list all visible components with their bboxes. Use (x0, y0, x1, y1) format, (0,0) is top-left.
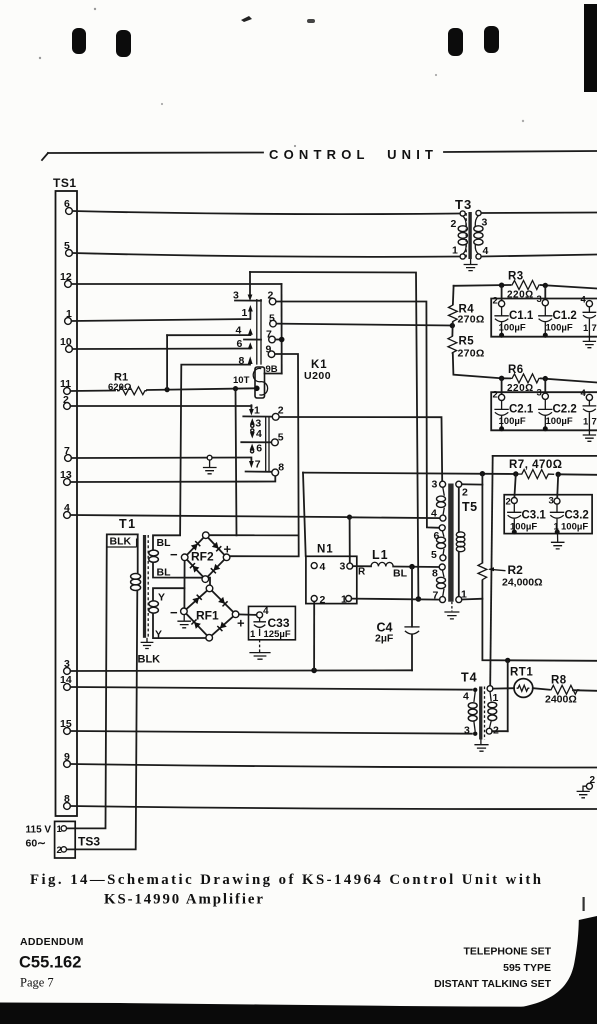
punch hole blob 3 (448, 28, 463, 56)
T4 right winding (488, 692, 497, 729)
SCAN ARTIFACTS TOP (39, 4, 597, 147)
svg-text:C2.1: C2.1 (509, 404, 534, 416)
svg-text:1: 1 (250, 629, 256, 640)
rectifier RF2 (181, 532, 230, 582)
T5 pin 1 (456, 589, 467, 603)
svg-text:−: − (170, 605, 178, 620)
svg-text:4: 4 (483, 245, 489, 257)
TS3 (26, 821, 101, 858)
T4 core (479, 687, 482, 740)
wire R3 left feed (454, 284, 510, 287)
wire T1 Y upper lead (153, 588, 184, 600)
wire K1 top feed down to T5 pin7 net (250, 272, 418, 599)
svg-text:U200: U200 (304, 370, 331, 382)
punch hole blob 2 (116, 30, 131, 57)
wire K1 contact9 down to RF2 plus (230, 354, 299, 556)
C3 terminal 2 (506, 497, 518, 508)
K1 upper contact 8 (239, 355, 253, 367)
TS1 terminal 13 (60, 469, 72, 485)
svg-text:C33: C33 (268, 616, 290, 630)
svg-text:T1: T1 (119, 517, 137, 531)
punch hole blob 1 (72, 28, 86, 54)
C1 terminal 3 (537, 294, 549, 306)
svg-text:3: 3 (464, 725, 470, 737)
TS1 terminal 7 (64, 445, 71, 461)
junction dot T4 pin2 riser (505, 658, 510, 663)
svg-text:4: 4 (431, 508, 437, 520)
svg-text:3: 3 (432, 479, 438, 491)
capacitor C1.2 (538, 306, 589, 338)
junction dot R4/R5 (450, 323, 455, 328)
junction dot TS1-4 bus (347, 515, 352, 520)
T1 core (143, 535, 146, 638)
svg-text:100µF: 100µF (546, 323, 573, 334)
svg-text:R: R (358, 567, 366, 578)
svg-text:Y: Y (158, 592, 165, 604)
svg-text:4: 4 (463, 691, 469, 703)
K1 upper contact 1 (242, 305, 253, 319)
wire TS1-11 to R1 (70, 390, 115, 393)
wire TS1-2 to K1 lower contact 1 (70, 405, 251, 407)
svg-text:2: 2 (451, 218, 457, 230)
junction dot bus/R2 (480, 471, 485, 476)
T5 pin 5 (431, 549, 446, 561)
svg-text:4: 4 (320, 561, 326, 573)
rectifier RF1 (181, 585, 239, 641)
resistor R1 (108, 372, 147, 395)
TS3 terminal 1 (57, 824, 67, 835)
T5 core (448, 484, 453, 602)
K1 upper contact 3 (233, 272, 261, 302)
C2 terminal 3 (537, 388, 549, 400)
wire T5 pin2 to R2 rail (462, 483, 483, 485)
CONTROL UNIT HEADER (42, 147, 597, 162)
wire R1 to K1 coil (147, 388, 257, 390)
svg-text:4: 4 (581, 388, 587, 399)
R7 C3 R2 area (462, 456, 597, 798)
ground on TS1-7 wire (203, 455, 217, 473)
svg-text:L1: L1 (372, 548, 389, 562)
K1 lower contact 6 (241, 442, 271, 454)
faint specks (39, 57, 41, 59)
wire TS1-15 bus to T4 pin3 (70, 731, 472, 734)
svg-text:C3.2: C3.2 (565, 510, 589, 522)
small mark (307, 19, 315, 23)
wire T3 pin3 to right edge (482, 212, 597, 215)
svg-text:C1.2: C1.2 (553, 310, 577, 322)
TS1 terminal 8 (64, 793, 71, 809)
T5 winding 6-5 (437, 531, 446, 555)
K1 lower contact 5 (272, 432, 284, 446)
svg-text:100µF: 100µF (499, 323, 526, 334)
svg-text:2: 2 (462, 487, 468, 499)
svg-text:Page 7: Page 7 (20, 976, 54, 990)
T1 primary winding (131, 574, 141, 591)
header left tick (42, 153, 48, 160)
header left rule (48, 152, 263, 155)
junction dot R1 wire / bridge feed drop (233, 386, 238, 391)
junction dots R7 (513, 471, 518, 476)
wire TS1-12 to K1 vertical (71, 283, 281, 285)
K1 upper contact 5 (269, 313, 276, 327)
resistor R2 (478, 563, 543, 589)
svg-text:2: 2 (506, 497, 511, 508)
resistor R8 (545, 675, 580, 706)
svg-text:DISTANT TALKING SET: DISTANT TALKING SET (434, 978, 551, 990)
wire R8 to right edge (573, 689, 597, 692)
C3 box (504, 495, 592, 534)
svg-text:TELEPHONE SET: TELEPHONE SET (463, 946, 551, 958)
wire TS1-9 bus (70, 764, 597, 768)
svg-text:270Ω: 270Ω (458, 348, 485, 360)
wire to T5 pin 4 (350, 516, 440, 519)
svg-text:10T: 10T (233, 375, 250, 386)
svg-text:125µF: 125µF (264, 629, 291, 640)
svg-text:C2.2: C2.2 (553, 404, 577, 416)
ground below C2 box (583, 430, 596, 441)
115V 60~ label (26, 825, 52, 850)
svg-text:6: 6 (237, 338, 243, 350)
9B jack label and box line (265, 364, 282, 375)
C2 terminal 4 (581, 388, 593, 401)
svg-text:24,000Ω: 24,000Ω (502, 577, 543, 589)
K1 upper contact 2 (268, 290, 276, 305)
K1 upper contact 4 (167, 325, 253, 337)
N1 pin 4 (311, 561, 325, 573)
TS1 terminal 2 (63, 394, 70, 409)
svg-text:620Ω: 620Ω (108, 382, 132, 393)
svg-text:N1: N1 (317, 544, 334, 556)
K1 lower contact 4 (250, 428, 262, 440)
svg-text:R3: R3 (508, 271, 524, 283)
ground at RF1 left (177, 615, 191, 628)
svg-text:8: 8 (239, 355, 245, 367)
junction dot R1 wire / contact4 drop (165, 387, 170, 392)
resistor R7 (509, 459, 563, 479)
N1 pin 3 (340, 561, 353, 573)
bottom right black corner (508, 916, 597, 1009)
T5 ground (444, 612, 459, 619)
MAIN WIRES (70, 211, 597, 809)
wire R5 to R6 (453, 354, 502, 379)
junction dots R6 (499, 376, 504, 381)
N1 pin 1 (341, 593, 352, 605)
C2 capacitor box (491, 392, 597, 430)
wire main bus y472 from N1 corner to R7 (303, 473, 516, 474)
svg-text:1: 1 (242, 307, 248, 319)
wire bridge feed: drop from R1 wire to RF2 top rail (236, 389, 237, 536)
TS1 terminal 10 (60, 336, 72, 352)
C3 terminal stems (514, 474, 558, 498)
wire TS1-4 bus to T5 pin4 / N1 pin3 (70, 515, 349, 517)
K1 upper contact 9 (266, 344, 275, 358)
T4 pin 1 (487, 686, 498, 704)
wire contact-4 drop (166, 335, 168, 389)
svg-text:BLK: BLK (138, 654, 161, 666)
svg-text:2µF: 2µF (375, 633, 394, 645)
thermistor RT1 (493, 667, 533, 698)
inductor L1 (353, 548, 439, 580)
junction dot contact7/12-wire (279, 337, 285, 343)
TS1 terminal 9 (64, 751, 71, 767)
svg-text:4: 4 (256, 428, 262, 440)
T5 pin 2 (456, 481, 468, 498)
svg-text:100µF: 100µF (499, 416, 526, 427)
wire TS1-8 bus (70, 806, 597, 809)
svg-text:2400Ω: 2400Ω (545, 694, 577, 706)
N1 box (306, 544, 357, 604)
wire N1 pin2 stem (313, 602, 315, 670)
T1 lower secondary winding (149, 601, 159, 613)
svg-text:270Ω: 270Ω (458, 314, 485, 326)
svg-text:100µF: 100µF (546, 416, 573, 427)
capacitor C1.1 (494, 307, 533, 338)
svg-text:7: 7 (255, 459, 261, 471)
svg-text:7: 7 (592, 323, 597, 334)
svg-text:1: 1 (452, 245, 458, 257)
svg-text:595 TYPE: 595 TYPE (503, 962, 551, 974)
svg-text:C1.1: C1.1 (509, 310, 534, 322)
junction dot at coil (254, 386, 260, 392)
svg-text:T3: T3 (455, 197, 472, 212)
T5 winding 3-4 (437, 487, 446, 515)
T5 pin 8 (432, 564, 445, 580)
wire T4 pin2 riser (507, 660, 509, 731)
svg-text:R6: R6 (508, 364, 524, 376)
amplifier top wire (493, 455, 597, 457)
wire K1 lower contact2 to T5 pin3 (278, 417, 442, 481)
svg-text:100µF: 100µF (561, 522, 588, 533)
TS1 terminal 1 (65, 308, 72, 324)
svg-text:BLK: BLK (110, 536, 132, 548)
wire down to T4 pin1 (490, 456, 493, 686)
svg-text:+: + (237, 616, 245, 631)
svg-text:TS3: TS3 (78, 835, 100, 849)
svg-text:7: 7 (592, 417, 597, 428)
svg-text:CONTROL UNIT: CONTROL UNIT (269, 147, 433, 162)
svg-text:−: − (170, 547, 178, 562)
svg-text:RT1: RT1 (510, 667, 533, 679)
T4 pin 4 (463, 688, 477, 703)
T3 right winding (474, 216, 483, 254)
svg-text:T4: T4 (461, 671, 478, 685)
TS1 terminal 12 (60, 271, 72, 287)
wire T1 BLK upper lead to TS3-1 (66, 534, 137, 828)
header right rule (444, 151, 597, 152)
svg-text:4: 4 (581, 295, 587, 306)
T4 ground (474, 740, 488, 752)
wire TS1-10 to K1 contact 6 (72, 348, 250, 351)
K1 lower contact 7 (246, 458, 272, 472)
TS3 box (55, 821, 76, 858)
C1 capacitor box (491, 299, 597, 337)
wire R3 right to edge (541, 285, 597, 289)
wire T5 pin8 from L1 (dot at K1 vert) (416, 596, 422, 602)
svg-text:RF2: RF2 (191, 550, 214, 564)
svg-text:C3.1: C3.1 (522, 510, 547, 522)
right edge black bar (584, 4, 597, 92)
capacitor C33 (249, 606, 296, 640)
svg-text:R5: R5 (459, 336, 475, 348)
resistor R3 (507, 271, 541, 301)
svg-text:R7, 470Ω: R7, 470Ω (509, 459, 563, 471)
capacitor at C1 box edge (583, 307, 597, 337)
CAPTION + FOOTER (0, 872, 597, 1024)
N1 L1 C4 T5 (306, 479, 478, 671)
R3 R4 R5 R6 C1 C2 (448, 271, 597, 442)
K1 upper contact 7 (266, 329, 282, 343)
wire R2 bottom rail to right edge (482, 581, 597, 661)
svg-text:C55.162: C55.162 (19, 954, 81, 972)
T1 RF1 RF2 C33 (66, 517, 295, 849)
svg-text:2: 2 (320, 594, 326, 606)
svg-text:3: 3 (537, 388, 542, 399)
wire T5 pin7 to N1 pin1 (352, 599, 440, 600)
TS1 terminal 6 (64, 198, 72, 214)
wire T1 BL lower lead to RF2 bottom / RF1 top (153, 563, 210, 585)
wire T4 pin2 to riser (492, 730, 508, 732)
svg-text:BL: BL (393, 568, 408, 580)
svg-text:1: 1 (583, 323, 589, 334)
svg-text:1: 1 (254, 405, 260, 417)
resistor R6 (502, 364, 541, 394)
wire TS1-6 to T3 pin2 (72, 211, 459, 214)
wire T1 Y lower lead to RF1 bottom (153, 614, 206, 639)
capacitor C4 (375, 567, 420, 671)
wire RF2 top rail (209, 534, 299, 536)
T3 pin 2 (451, 211, 466, 230)
T1 core ground (141, 638, 154, 649)
relay coil K1 (10T) (233, 367, 268, 398)
T4 pin 3 (464, 725, 477, 737)
svg-text:3: 3 (549, 496, 554, 507)
svg-text:RF1: RF1 (196, 609, 219, 623)
TS1 strip outline (56, 191, 78, 816)
T5 pin 3 (432, 479, 446, 491)
wire main bus after R7 to right edge (558, 473, 597, 476)
resistor R5 (448, 323, 485, 360)
C2 terminal 2 (493, 390, 505, 401)
terminal 2 with ground at right edge (577, 775, 596, 798)
svg-text:ADDENDUM: ADDENDUM (20, 936, 84, 948)
svg-text:60∼: 60∼ (26, 838, 47, 850)
wire T1 BLK lower lead to TS3-2 (66, 591, 137, 850)
wire N1 pin3 stem (349, 517, 351, 563)
C1 terminal stems (502, 285, 546, 300)
svg-text:KS-14990 Amplifier: KS-14990 Amplifier (104, 892, 263, 908)
svg-text:Fig. 14—Schematic Drawing of K: Fig. 14—Schematic Drawing of KS-14964 Co… (30, 872, 541, 888)
capacitor C3.2 (550, 504, 589, 534)
TS1 terminal 14 (60, 674, 72, 690)
svg-text:R2: R2 (508, 563, 524, 577)
wire TS1-5 to T3 pin1 (72, 253, 459, 257)
T5 pin 4 (431, 508, 446, 522)
TS1 terminal 15 (60, 718, 72, 734)
svg-text:115 V: 115 V (26, 825, 52, 836)
svg-text:BL: BL (157, 537, 172, 549)
junction dots R3 (499, 283, 504, 288)
svg-text:3: 3 (340, 561, 346, 573)
K1 relay (167, 272, 331, 476)
capacitor at C2 box edge (583, 401, 597, 431)
wire K1 contact5 to R4/R5 junction (276, 324, 452, 326)
TS3 terminal 2 (57, 845, 67, 856)
T5 right winding (456, 487, 465, 596)
svg-text:5: 5 (431, 549, 437, 561)
K1 lower contact 8 (272, 462, 284, 476)
wire TS1-3 to C4 bottom (70, 669, 412, 672)
junction dot L1/C4 (409, 564, 415, 570)
wire contact8 drop / T1 BL upper lead (153, 365, 250, 550)
svg-text:6: 6 (256, 443, 262, 455)
svg-text:2: 2 (493, 390, 498, 401)
C1 terminal 2 (493, 296, 505, 307)
TS1 terminal 3 (64, 658, 71, 674)
wire TS1-7 to K1 lower contact 7 (71, 457, 249, 460)
right edge tick (583, 897, 585, 911)
ground below C1 box (583, 337, 596, 348)
T3 left winding (458, 216, 467, 254)
TS1 terminal strip (53, 176, 77, 816)
wire RF1 plus to C33 (239, 613, 257, 616)
K1 lower contact 2 (272, 405, 283, 421)
ink mark top center (241, 16, 252, 22)
svg-text:+: + (224, 542, 232, 557)
junction dot N1 pin2 / TS1-3 wire (311, 668, 317, 674)
T3 ground (464, 259, 478, 271)
K1 lower contact 1 (243, 405, 272, 417)
ground below C3.2 (551, 534, 565, 549)
T4 pin 2 (486, 725, 499, 737)
TS1 terminal 5 (64, 240, 72, 256)
wire R6 right to edge (541, 378, 597, 382)
T1 upper secondary winding (149, 550, 159, 562)
T3 pin 4 (476, 245, 489, 259)
wire bus corner down to N1 (303, 473, 306, 556)
svg-text:TS1: TS1 (53, 176, 77, 190)
C33 ground (dashed stem) (249, 640, 270, 659)
wire RF2 left to RF1 left (183, 561, 185, 608)
TS1 terminal 11 (60, 378, 71, 394)
bottom black scan band (0, 1003, 597, 1024)
wire TS1-13 to K1 lower contact 8 (70, 476, 275, 482)
T5 pin 6 (434, 525, 446, 542)
svg-text:2: 2 (493, 296, 498, 307)
svg-text:1: 1 (583, 417, 589, 428)
T4 RT1 R8 (461, 667, 597, 752)
wire bus down through R2 (481, 474, 483, 563)
BLK label box (107, 536, 137, 548)
wire T5 pin1 to R2 rail (462, 598, 483, 601)
T5 winding 8-7 (437, 570, 446, 597)
T3 pin 1 (452, 245, 465, 260)
capacitor C2.1 (494, 401, 533, 432)
capacitor C3.1 (507, 504, 546, 535)
wire TS1-12 vertical along K1 (281, 284, 283, 374)
wire TS1-1 to K1 contact 1 (71, 319, 250, 321)
wire RT1 to R8 (533, 688, 549, 690)
K1 upper card (257, 299, 261, 365)
T3 pin 3 (476, 210, 488, 228)
K1 lower card (266, 416, 269, 473)
C2 terminal stems (502, 378, 546, 394)
svg-text:3: 3 (537, 294, 542, 305)
C1 terminal 4 (581, 295, 593, 307)
wire TS1-14 bus to T4 pin4 (70, 687, 472, 690)
punch hole blob 4 (484, 26, 499, 53)
capacitor C2.2 (538, 399, 589, 431)
wire T3 pin4 to right edge (482, 255, 597, 257)
